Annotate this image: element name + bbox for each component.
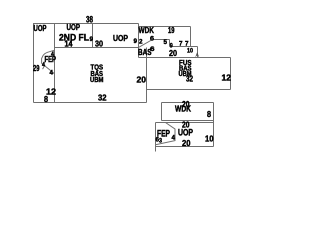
svg-text:7: 7	[185, 41, 189, 48]
svg-text:32: 32	[186, 75, 193, 84]
svg-text:BAS: BAS	[138, 48, 152, 57]
bottom FEP bay outline	[156, 123, 176, 145]
arrow mark on x198 wall	[195, 52, 199, 57]
bottom block left wall	[155, 123, 157, 147]
left FEP bay outline	[42, 50, 55, 74]
svg-text:32: 32	[98, 94, 107, 103]
wire WDK right wall	[190, 27, 192, 47]
svg-text:8: 8	[44, 95, 48, 104]
svg-text:9: 9	[134, 38, 138, 45]
svg-text:UOP: UOP	[178, 128, 193, 138]
bottom block right wall	[213, 103, 215, 147]
svg-text:4: 4	[50, 70, 54, 77]
svg-text:8: 8	[207, 110, 211, 119]
wire step down at x=138	[138, 24, 140, 58]
svg-text:10: 10	[205, 134, 214, 144]
wire main box right wall	[146, 48, 148, 103]
svg-text:20: 20	[182, 138, 191, 148]
svg-text:7: 7	[179, 41, 183, 48]
wire divider x=92.5	[92, 24, 94, 48]
wire FUS right wall	[230, 58, 232, 90]
bottom block bottom edge	[156, 146, 214, 148]
svg-text:29: 29	[33, 64, 40, 73]
wire left outer wall	[33, 24, 35, 103]
bottom block WDK left wall	[161, 103, 163, 121]
svg-text:3: 3	[159, 138, 162, 145]
wire v at x169	[169, 40, 171, 47]
svg-text:20: 20	[169, 49, 177, 58]
bottom block UOP top	[156, 122, 214, 124]
svg-text:30: 30	[95, 40, 103, 49]
wire h at y39	[153, 39, 170, 41]
svg-text:14: 14	[65, 40, 73, 49]
svg-text:10: 10	[187, 48, 193, 55]
svg-text:UOP: UOP	[113, 34, 129, 43]
svg-text:19: 19	[168, 26, 175, 35]
wire top edge of upper boxes	[33, 23, 139, 25]
bottom block WDK bottom	[162, 120, 214, 122]
svg-text:WDK: WDK	[175, 105, 191, 114]
svg-text:12: 12	[222, 73, 232, 83]
wire divider x=54	[54, 24, 56, 103]
tick below bottom-left corner	[155, 147, 157, 152]
svg-text:UBM: UBM	[90, 75, 104, 84]
svg-text:5: 5	[164, 39, 168, 46]
svg-text:20: 20	[137, 75, 147, 85]
svg-text:38: 38	[86, 15, 93, 25]
svg-text:4: 4	[42, 62, 45, 69]
svg-text:2: 2	[139, 39, 143, 46]
wire FUS bottom	[147, 89, 231, 91]
wire bottom of 2nd floor boxes	[55, 47, 139, 49]
svg-text:9: 9	[90, 36, 94, 43]
wire FUS top	[139, 57, 231, 59]
svg-text:FEP: FEP	[45, 55, 57, 64]
wire h at y46	[170, 46, 198, 48]
svg-text:6: 6	[150, 36, 154, 43]
wire diagonal bas strip	[139, 40, 153, 48]
tick under 4 label left FEP	[43, 67, 44, 69]
wire v at x198	[197, 47, 199, 58]
wire WDK top edge	[139, 26, 191, 28]
svg-text:UOP: UOP	[34, 24, 47, 33]
bottom block WDK top	[162, 102, 214, 104]
svg-text:4: 4	[172, 135, 176, 142]
wire main box bottom	[34, 102, 147, 104]
svg-text:WDK: WDK	[139, 26, 155, 35]
svg-text:UOP: UOP	[67, 23, 81, 32]
